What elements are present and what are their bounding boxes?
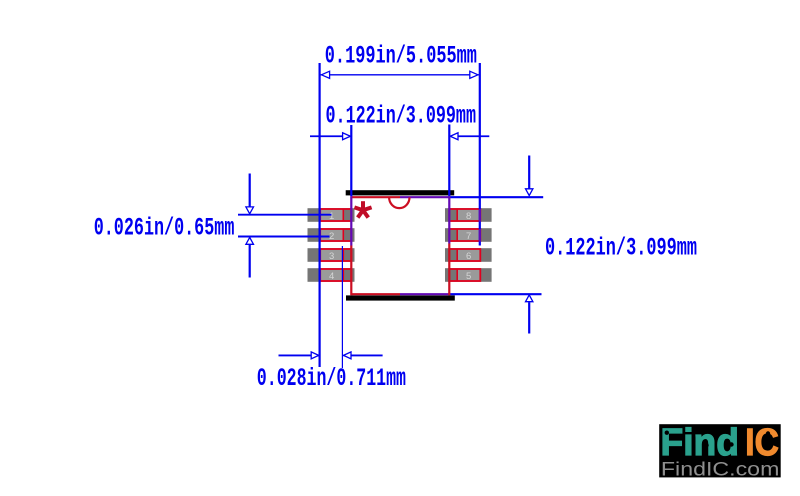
- svg-text:2: 2: [329, 231, 334, 242]
- svg-text:0.028in/0.711mm: 0.028in/0.711mm: [257, 364, 406, 393]
- svg-text:FindIC.com: FindIC.com: [661, 458, 780, 480]
- svg-text:0.199in/5.055mm: 0.199in/5.055mm: [325, 42, 477, 71]
- svg-text:5: 5: [466, 271, 471, 282]
- svg-text:0.122in/3.099mm: 0.122in/3.099mm: [326, 101, 477, 130]
- svg-text:4: 4: [329, 271, 334, 282]
- svg-text:1: 1: [329, 211, 334, 222]
- svg-text:0.122in/3.099mm: 0.122in/3.099mm: [545, 233, 697, 262]
- svg-text:7: 7: [466, 231, 471, 242]
- svg-text:3: 3: [329, 251, 334, 262]
- svg-text:6: 6: [466, 251, 471, 262]
- svg-text:0.026in/0.65mm: 0.026in/0.65mm: [94, 213, 235, 242]
- svg-text:8: 8: [466, 211, 471, 222]
